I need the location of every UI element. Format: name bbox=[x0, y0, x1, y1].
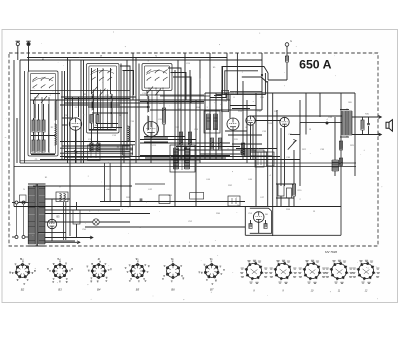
mains terminal P2 bbox=[22, 201, 25, 204]
tube socket B10 bbox=[304, 263, 319, 278]
wire bbox=[45, 209, 120, 211]
resistor R11 bbox=[162, 108, 165, 124]
power transformer T5 secondary bbox=[39, 186, 45, 244]
loop wire bbox=[250, 208, 272, 233]
box det2 bbox=[267, 152, 275, 166]
coil L2 bbox=[55, 100, 57, 120]
resistor R5 bbox=[37, 140, 40, 152]
pilot lamp LP bbox=[93, 219, 99, 225]
wire bbox=[83, 60, 85, 163]
capacitor C2 bbox=[278, 184, 284, 196]
bus wire bbox=[20, 162, 356, 164]
wire bbox=[352, 116, 382, 118]
wire bbox=[334, 117, 336, 160]
wire bbox=[173, 77, 191, 103]
tube base B3 bbox=[54, 265, 67, 278]
wire bbox=[305, 93, 307, 135]
wire bbox=[189, 70, 191, 160]
mains terminal P1 bbox=[15, 201, 18, 204]
wire bbox=[60, 104, 120, 106]
wire bbox=[31, 135, 55, 137]
wire bbox=[63, 202, 65, 240]
wire bbox=[78, 97, 80, 117]
box bbox=[159, 195, 170, 204]
tube socket B12 bbox=[358, 263, 373, 278]
box det1 bbox=[255, 150, 264, 167]
wire bbox=[19, 60, 21, 163]
tube socket B8 bbox=[246, 263, 261, 278]
wire bbox=[250, 125, 252, 159]
wire bbox=[276, 110, 278, 207]
svg-text:B6: B6 bbox=[171, 288, 175, 292]
wire bbox=[120, 66, 130, 90]
coil L5 bbox=[147, 96, 149, 112]
resistor R16 bbox=[210, 138, 213, 150]
wire bbox=[33, 132, 35, 140]
tube B2 bbox=[144, 122, 159, 137]
wire bbox=[225, 71, 258, 95]
coil L4 bbox=[111, 94, 113, 128]
wire bbox=[140, 139, 196, 141]
wire bbox=[20, 59, 262, 61]
wire bbox=[38, 231, 66, 233]
wire bbox=[91, 68, 93, 94]
wire bbox=[28, 183, 46, 185]
wire bbox=[16, 204, 18, 236]
wire bbox=[61, 96, 136, 98]
wire bbox=[180, 95, 182, 160]
wire bbox=[60, 152, 133, 154]
wire bbox=[140, 142, 230, 144]
electrolytic C4 bbox=[73, 210, 80, 224]
wire bbox=[123, 70, 125, 163]
wire bbox=[160, 95, 210, 97]
wire bbox=[33, 185, 132, 187]
coil L7 bbox=[128, 126, 130, 141]
wire bbox=[33, 100, 35, 104]
wire bbox=[184, 53, 186, 163]
wire bbox=[232, 143, 262, 145]
resistor R15 bbox=[188, 132, 191, 145]
wire bbox=[246, 100, 248, 163]
wire bbox=[45, 221, 93, 223]
coil block S3 bbox=[142, 64, 172, 96]
wire bbox=[300, 122, 342, 124]
wire bbox=[60, 141, 135, 143]
wire bbox=[216, 94, 265, 96]
resistor R8 bbox=[90, 115, 93, 124]
wire bbox=[40, 159, 300, 161]
wire bbox=[94, 127, 122, 129]
wire bbox=[240, 151, 268, 153]
wire bbox=[51, 199, 53, 219]
anode wire bbox=[340, 93, 342, 235]
resistor R7 bbox=[96, 115, 99, 124]
box bbox=[228, 196, 240, 206]
wire bbox=[255, 120, 281, 122]
wire bbox=[62, 145, 130, 147]
bus wire bbox=[14, 206, 341, 208]
heater wire bbox=[45, 237, 93, 239]
wire bbox=[205, 92, 355, 94]
wire bbox=[225, 130, 247, 132]
voltage selector bbox=[20, 195, 27, 202]
resistor R17 bbox=[218, 138, 221, 150]
tube base B6 bbox=[167, 265, 180, 278]
tube base B4 bbox=[92, 265, 105, 278]
wire bbox=[75, 131, 77, 164]
wire bbox=[223, 67, 269, 95]
wire bbox=[27, 57, 227, 59]
output transformer T4 bbox=[342, 111, 346, 135]
smoothing choke CH bbox=[56, 192, 68, 202]
svg-text:B5: B5 bbox=[136, 288, 140, 292]
wire bbox=[168, 68, 181, 95]
wire bbox=[267, 81, 269, 207]
tube base B5 bbox=[131, 265, 144, 278]
wire bbox=[284, 127, 286, 186]
wire bbox=[88, 106, 150, 108]
wire bbox=[85, 226, 245, 228]
wire bbox=[144, 137, 168, 139]
wire bbox=[60, 147, 133, 149]
resistor R18 bbox=[241, 143, 244, 155]
wire bbox=[204, 93, 206, 160]
wire bbox=[18, 202, 28, 204]
wire bbox=[352, 134, 382, 136]
wire bbox=[30, 99, 227, 101]
wire bbox=[252, 125, 254, 160]
wire bbox=[276, 183, 296, 185]
svg-text:650 A: 650 A bbox=[299, 58, 331, 72]
wire bbox=[91, 123, 93, 143]
wire bbox=[62, 117, 72, 119]
svg-text:G: G bbox=[290, 39, 292, 43]
coil block S2 bbox=[87, 64, 120, 134]
svg-text:MV 7636: MV 7636 bbox=[325, 250, 337, 254]
resistor R23 bbox=[339, 141, 342, 150]
wire bbox=[209, 53, 211, 160]
wire bbox=[138, 64, 140, 160]
tube B4 bbox=[246, 116, 255, 125]
wire bbox=[61, 71, 63, 160]
resistor R24 bbox=[339, 158, 342, 166]
wire bbox=[129, 70, 131, 207]
switch contact bbox=[242, 76, 261, 78]
wire bbox=[171, 73, 187, 101]
bus wire bbox=[14, 166, 356, 168]
wire bbox=[60, 156, 280, 158]
wire bbox=[123, 71, 134, 96]
resistor R14 bbox=[179, 132, 182, 145]
box B1 bbox=[88, 145, 101, 160]
capacitor C1 bbox=[184, 148, 187, 149]
wire bbox=[195, 100, 197, 207]
output tube B6 bbox=[253, 212, 264, 223]
wire bbox=[135, 58, 137, 164]
wire bbox=[267, 73, 269, 80]
volume potentiometer bbox=[288, 140, 296, 149]
wire bbox=[135, 183, 165, 185]
bias capacitor C41 bbox=[264, 224, 267, 229]
resistor R4 bbox=[32, 140, 35, 152]
svg-text:~: ~ bbox=[5, 135, 7, 139]
tube B1 bbox=[69, 118, 81, 130]
wire bbox=[120, 64, 122, 207]
chassis dashed boundary bbox=[9, 53, 378, 246]
wire bbox=[255, 93, 257, 207]
wire bbox=[62, 124, 68, 126]
tube base B7 bbox=[205, 265, 218, 278]
wire bbox=[226, 53, 228, 100]
wire bbox=[64, 71, 66, 160]
wire bbox=[299, 100, 301, 186]
tube B5 bbox=[280, 117, 289, 126]
IF transformer T1 bbox=[204, 111, 220, 133]
wire bbox=[205, 95, 230, 100]
tube socket B11 bbox=[331, 263, 346, 278]
wire bbox=[24, 71, 26, 163]
wire bbox=[67, 58, 69, 164]
wire bbox=[132, 53, 134, 100]
resistor R3 bbox=[42, 120, 45, 132]
wire bbox=[272, 93, 274, 236]
rectifier tube B5r bbox=[47, 219, 56, 228]
capacitor C39 bbox=[326, 122, 328, 124]
wire bbox=[199, 60, 201, 163]
power transformer T5 core bbox=[35, 184, 37, 247]
tube base B2 bbox=[16, 265, 29, 278]
wire bbox=[280, 196, 282, 207]
tube socket B9 bbox=[275, 263, 290, 278]
wire bbox=[319, 93, 321, 117]
resistor R6 bbox=[42, 140, 45, 152]
coil L3 bbox=[92, 94, 94, 110]
wave switch wire bbox=[236, 53, 238, 95]
svg-text:B4: B4 bbox=[97, 288, 101, 292]
antenna terminal A2 bbox=[27, 42, 30, 45]
fuse F1 bbox=[286, 46, 288, 56]
wire bbox=[69, 60, 71, 236]
hum coil M1 bbox=[332, 160, 339, 171]
loudspeaker LS bbox=[386, 120, 392, 132]
wire bbox=[104, 163, 106, 202]
wire bbox=[100, 201, 245, 203]
wire bbox=[89, 129, 116, 131]
grid resistor R21 bbox=[361, 120, 364, 130]
wire bbox=[146, 91, 148, 97]
capacitor C48 bbox=[140, 199, 143, 200]
wire bbox=[232, 130, 234, 160]
wire bbox=[30, 90, 130, 92]
wire bbox=[221, 66, 223, 160]
wire bbox=[80, 60, 82, 163]
pickup terminal G bbox=[285, 43, 289, 47]
tube B3 bbox=[227, 118, 239, 130]
svg-text:B7: B7 bbox=[210, 288, 214, 292]
resistor R9 bbox=[97, 143, 100, 152]
resistor R1 bbox=[32, 120, 35, 132]
wire bbox=[340, 109, 349, 111]
wire bbox=[250, 115, 342, 117]
wire bbox=[230, 105, 256, 107]
resistor R10 bbox=[90, 143, 93, 152]
wire bbox=[268, 79, 287, 81]
power transformer T5 primary bbox=[28, 186, 35, 244]
wire bbox=[258, 222, 260, 233]
wire bbox=[140, 155, 230, 157]
wire bbox=[16, 118, 18, 163]
svg-text:B2: B2 bbox=[21, 288, 25, 292]
wire bbox=[215, 93, 217, 160]
wire bbox=[150, 109, 262, 111]
svg-text:B3: B3 bbox=[58, 288, 62, 292]
wire bbox=[354, 93, 356, 176]
wire bbox=[177, 60, 179, 163]
resistor R2 bbox=[37, 120, 40, 132]
wire bbox=[280, 128, 282, 186]
wire bbox=[150, 137, 152, 164]
wire bbox=[45, 198, 70, 200]
box B2 bbox=[123, 145, 133, 155]
wire bbox=[13, 60, 15, 207]
wire bbox=[126, 60, 128, 150]
wire bbox=[20, 160, 200, 162]
heater wire bbox=[45, 241, 80, 243]
coil block S1 bbox=[28, 71, 58, 156]
IF transformer T3 bbox=[170, 145, 195, 172]
wire bbox=[176, 149, 256, 151]
wire bbox=[64, 102, 204, 104]
wire bbox=[64, 98, 130, 100]
wire bbox=[75, 130, 77, 163]
wire bbox=[174, 70, 176, 207]
coil L1 bbox=[34, 104, 36, 118]
wire bbox=[242, 81, 244, 160]
cathode resistor R25 bbox=[249, 224, 252, 229]
resistor R19 bbox=[292, 184, 295, 196]
wire bbox=[261, 53, 263, 110]
IF box T2 bbox=[222, 90, 229, 111]
wire bbox=[229, 100, 231, 118]
capacitor C3 bbox=[367, 124, 370, 125]
wire bbox=[214, 95, 222, 97]
antenna terminal A1 bbox=[16, 42, 19, 45]
wire bbox=[72, 97, 74, 118]
bus wire bbox=[245, 234, 341, 236]
